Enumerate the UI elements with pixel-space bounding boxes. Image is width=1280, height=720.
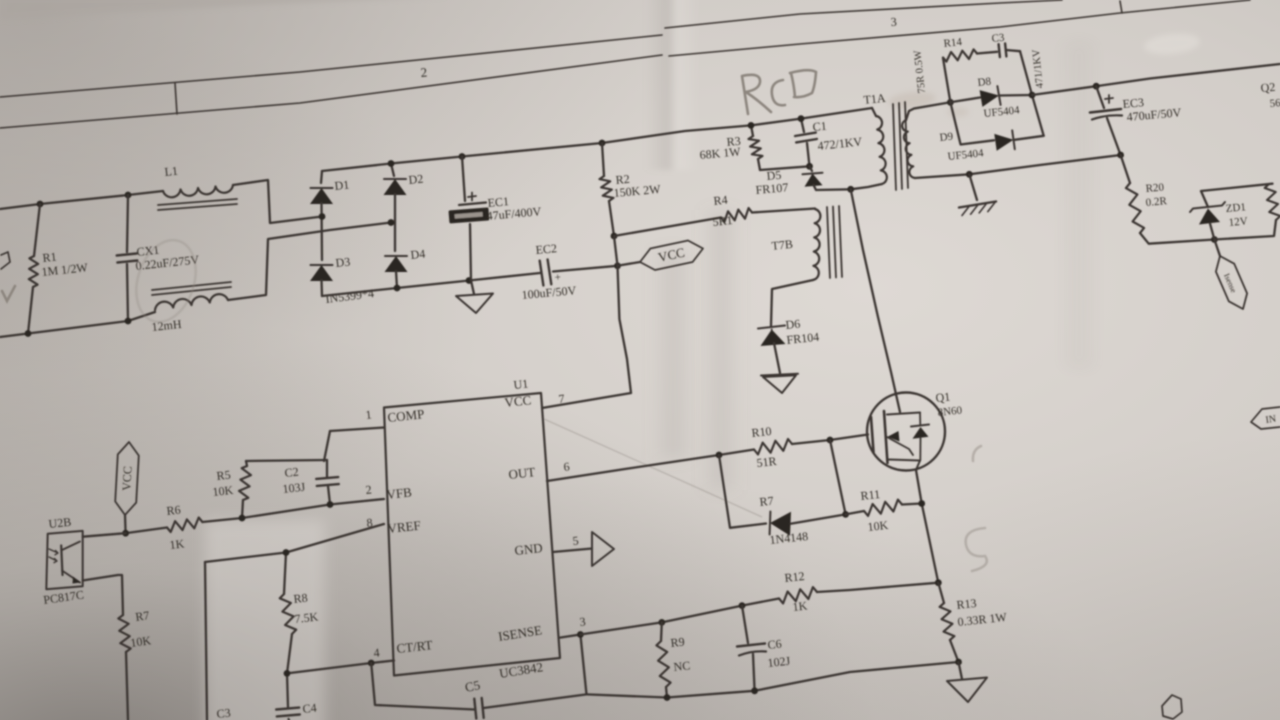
- diode D8: [950, 98, 980, 103]
- resistor R6: [126, 528, 167, 534]
- svg-text:3: 3: [890, 15, 897, 29]
- svg-text:1K: 1K: [792, 598, 808, 613]
- wire secondary top to snubber node: [906, 102, 950, 120]
- faint stains: [887, 90, 936, 111]
- svg-text:C6: C6: [767, 637, 782, 652]
- capacitor EC3 electrolytic: [1093, 83, 1100, 90]
- node junction top-left: [37, 201, 44, 208]
- T1A core lines: [893, 104, 896, 190]
- wire drain to Q1: [851, 189, 900, 412]
- wire Q1 source line: [916, 470, 938, 583]
- wire VFB rail: [202, 499, 384, 522]
- wire DC- bottom bus: [322, 273, 540, 296]
- ground below D6: [761, 374, 798, 376]
- diode D1: [321, 171, 322, 183]
- wire VCC to R4: [614, 218, 721, 237]
- capacitor C5: [474, 699, 476, 719]
- svg-text:EC2: EC2: [535, 241, 557, 257]
- sheet border top (right of crease): [665, 0, 1062, 28]
- svg-text:R5: R5: [216, 468, 231, 483]
- pencil S mark near Q1: [966, 528, 987, 571]
- resistor right edge (partial): [1265, 184, 1280, 220]
- diode D6: [758, 326, 785, 329]
- L1 bottom core lines: [152, 282, 231, 290]
- node drain junction: [847, 186, 854, 193]
- wire bridge mid left leg: [320, 203, 323, 260]
- svg-text:0.2R: 0.2R: [1145, 195, 1168, 209]
- svg-text:OUT: OUT: [508, 464, 536, 482]
- svg-text:L1: L1: [164, 164, 179, 179]
- wire AC top rail: [0, 191, 163, 209]
- svg-text:2: 2: [420, 64, 428, 80]
- svg-text:5R1: 5R1: [712, 213, 733, 229]
- resistor R3 snubber: [751, 125, 753, 136]
- net label VCC (primary): [618, 262, 641, 266]
- T7B core lines: [827, 207, 830, 278]
- wire U2B collector to VCC node: [83, 533, 126, 537]
- svg-text:D1: D1: [334, 178, 350, 193]
- node ZD1 bottom junction: [1211, 236, 1218, 243]
- svg-text:1K: 1K: [169, 536, 185, 551]
- svg-text:ZD1: ZD1: [1225, 201, 1246, 215]
- svg-text:R7: R7: [134, 608, 150, 624]
- capacitor C4: [287, 673, 288, 707]
- diode D3: [310, 265, 333, 281]
- resistor R14 secondary snubber: [943, 58, 950, 102]
- inductor L1 bottom winding 12mH: [155, 294, 228, 310]
- IC U1 UC3842 box: [384, 393, 560, 676]
- resistor R11: [846, 511, 864, 514]
- wire gate line: [719, 450, 754, 456]
- svg-text:R9: R9: [670, 635, 685, 650]
- svg-text:C5: C5: [464, 677, 482, 695]
- L1 core lines: [158, 199, 237, 205]
- svg-text:C3: C3: [991, 32, 1006, 45]
- svg-text:102J: 102J: [767, 654, 791, 670]
- resistor R2: [602, 143, 604, 176]
- svg-text:D8: D8: [977, 76, 992, 89]
- node VCC junction: [614, 262, 621, 269]
- svg-text:R6: R6: [166, 503, 181, 518]
- wire ZD1 top loop: [1201, 184, 1273, 207]
- wire R2 bottom to VCC node: [614, 236, 618, 266]
- svg-text:D6: D6: [785, 317, 801, 332]
- svg-text:FR107: FR107: [755, 180, 789, 197]
- svg-text:51R: 51R: [756, 454, 777, 470]
- wire pin7 VCC riser: [542, 266, 631, 408]
- wire pin4 to C5: [371, 663, 474, 710]
- capacitor EC1 electrolytic: [462, 157, 465, 202]
- wire T7B to D6: [771, 280, 813, 326]
- svg-text:NC: NC: [673, 658, 691, 674]
- net label VCC (left, vertical): [124, 515, 127, 533]
- crease vertical centre: [645, 0, 699, 170]
- capacitor C3 secondary snubber: [999, 44, 1000, 57]
- wire R10 right to D7 node: [830, 440, 846, 514]
- svg-text:R7: R7: [759, 494, 774, 509]
- aux winding T7B: [813, 209, 820, 280]
- ground below EC1: [471, 281, 474, 295]
- optocoupler U2B PC817C: [46, 531, 82, 589]
- wire COMP riser: [324, 431, 330, 461]
- handwritten RCD annotation: [742, 70, 816, 114]
- partial net label at left edge: [1, 252, 10, 269]
- inductor L1 top winding: [163, 185, 233, 197]
- resistor R20: [1121, 155, 1130, 183]
- node secondary snubber junction: [947, 99, 954, 106]
- ground below R13: [955, 659, 962, 666]
- wire DC+ top rail: [322, 108, 872, 171]
- resistor R12: [779, 587, 817, 603]
- svg-text:103J: 103J: [282, 480, 306, 496]
- svg-text:VFB: VFB: [386, 484, 413, 502]
- wire L1 to bridge left leg: [233, 180, 322, 223]
- diode D5: [805, 174, 823, 187]
- wire secondary output rail: [1032, 64, 1280, 95]
- svg-text:U1: U1: [513, 377, 529, 392]
- svg-text:R4: R4: [713, 193, 728, 208]
- partial shape bottom right: [1162, 695, 1182, 719]
- svg-text:D4: D4: [410, 247, 426, 262]
- node secondary return junction: [966, 171, 973, 178]
- capacitor C6: [739, 602, 746, 609]
- pin5 GND arrow: [553, 549, 592, 553]
- svg-text:+: +: [554, 271, 561, 283]
- svg-text:R10: R10: [751, 424, 772, 440]
- resistor R9 (NC): [658, 619, 665, 626]
- zener diode ZD1: [1190, 202, 1225, 212]
- resistor R1: [34, 204, 40, 256]
- capacitor EC2: [540, 261, 544, 286]
- svg-text:R8: R8: [293, 591, 308, 606]
- svg-text:D2: D2: [408, 172, 424, 187]
- wire CT/RT rail: [287, 661, 394, 674]
- resistor R5: [242, 500, 243, 518]
- svg-text:C2: C2: [284, 465, 299, 480]
- node D8 cathode junction: [1029, 92, 1036, 99]
- handwritten checkmark: [2, 286, 15, 301]
- resistor R7 (left): [118, 615, 130, 652]
- svg-text:R13: R13: [956, 596, 977, 612]
- resistor R13: [938, 583, 944, 603]
- resistor R4: [721, 208, 752, 222]
- svg-text:C1: C1: [812, 119, 827, 134]
- svg-text:Q2: Q2: [1260, 80, 1276, 95]
- resistor R10: [754, 439, 792, 455]
- wire snubber right side: [1020, 51, 1044, 136]
- wire VREF rail: [205, 524, 384, 562]
- svg-text:56: 56: [1269, 97, 1280, 110]
- capacitor CX1: [127, 195, 128, 252]
- node junction bottom-left: [25, 330, 32, 337]
- MOSFET Q1 8N60: [867, 393, 945, 471]
- partial net label right edge: [1251, 407, 1280, 429]
- svg-text:D3: D3: [335, 255, 351, 270]
- svg-text:10K: 10K: [212, 483, 234, 499]
- secondary ground (hatched): [969, 174, 977, 200]
- diode D7 1N4148 (labelled R7): [770, 512, 791, 536]
- svg-text:R12: R12: [784, 569, 805, 585]
- svg-text:U2B: U2B: [48, 515, 72, 531]
- wire ISENSE rail: [580, 599, 779, 635]
- wire secondary return rail: [915, 155, 1121, 178]
- diode D2: [391, 164, 394, 177]
- svg-text:VCC: VCC: [119, 466, 134, 491]
- svg-text:12V: 12V: [1228, 215, 1248, 229]
- wire AC bottom rail: [0, 312, 155, 337]
- wire pin6 OUT to gate: [547, 455, 719, 481]
- svg-text:VCC: VCC: [504, 392, 532, 410]
- wire bridge mid right leg: [394, 194, 396, 251]
- svg-text:R14: R14: [943, 36, 963, 50]
- node EC3 bottom junction: [1117, 152, 1124, 159]
- wire 12mH to bridge right leg: [228, 223, 391, 301]
- faint crease diagonal line: [544, 419, 762, 517]
- capacitor C2: [246, 460, 327, 461]
- wire pin3 ISENSE stub: [560, 635, 580, 638]
- transformer T1A primary winding: [872, 108, 876, 116]
- net label node (vertical oval right): [1214, 240, 1220, 257]
- wire ISENSE down leg: [580, 635, 586, 695]
- svg-text:Q1: Q1: [935, 390, 951, 405]
- svg-text:C4: C4: [302, 701, 317, 716]
- svg-text:IN: IN: [1265, 414, 1277, 426]
- wire U2B emitter to R7: [83, 575, 123, 615]
- svg-text:R11: R11: [860, 487, 881, 503]
- svg-text:T1A: T1A: [863, 91, 887, 107]
- svg-text:C3: C3: [216, 706, 231, 720]
- crease right: [1055, 40, 1103, 370]
- svg-text:D9: D9: [939, 131, 954, 144]
- svg-text:R20: R20: [1145, 181, 1165, 195]
- svg-text:7.5K: 7.5K: [294, 610, 319, 626]
- paper top edge: [0, 0, 450, 20]
- wire VREF loop left vertical: [205, 562, 207, 720]
- svg-text:GND: GND: [514, 540, 544, 558]
- diode D4: [385, 256, 408, 272]
- wire gate lower branch: [719, 455, 766, 528]
- capacitor C1 snubber: [801, 119, 804, 132]
- wire ground bus bottom: [587, 662, 959, 698]
- pencil loop around CX1: [126, 232, 205, 329]
- svg-text:T7B: T7B: [771, 237, 794, 253]
- transformer T1A secondary winding: [902, 120, 915, 178]
- sheet border top (left of crease): [0, 35, 662, 97]
- diode D9: [950, 102, 994, 144]
- svg-text:10K: 10K: [129, 633, 152, 650]
- resistor R8: [284, 553, 286, 595]
- svg-text:10K: 10K: [867, 518, 889, 534]
